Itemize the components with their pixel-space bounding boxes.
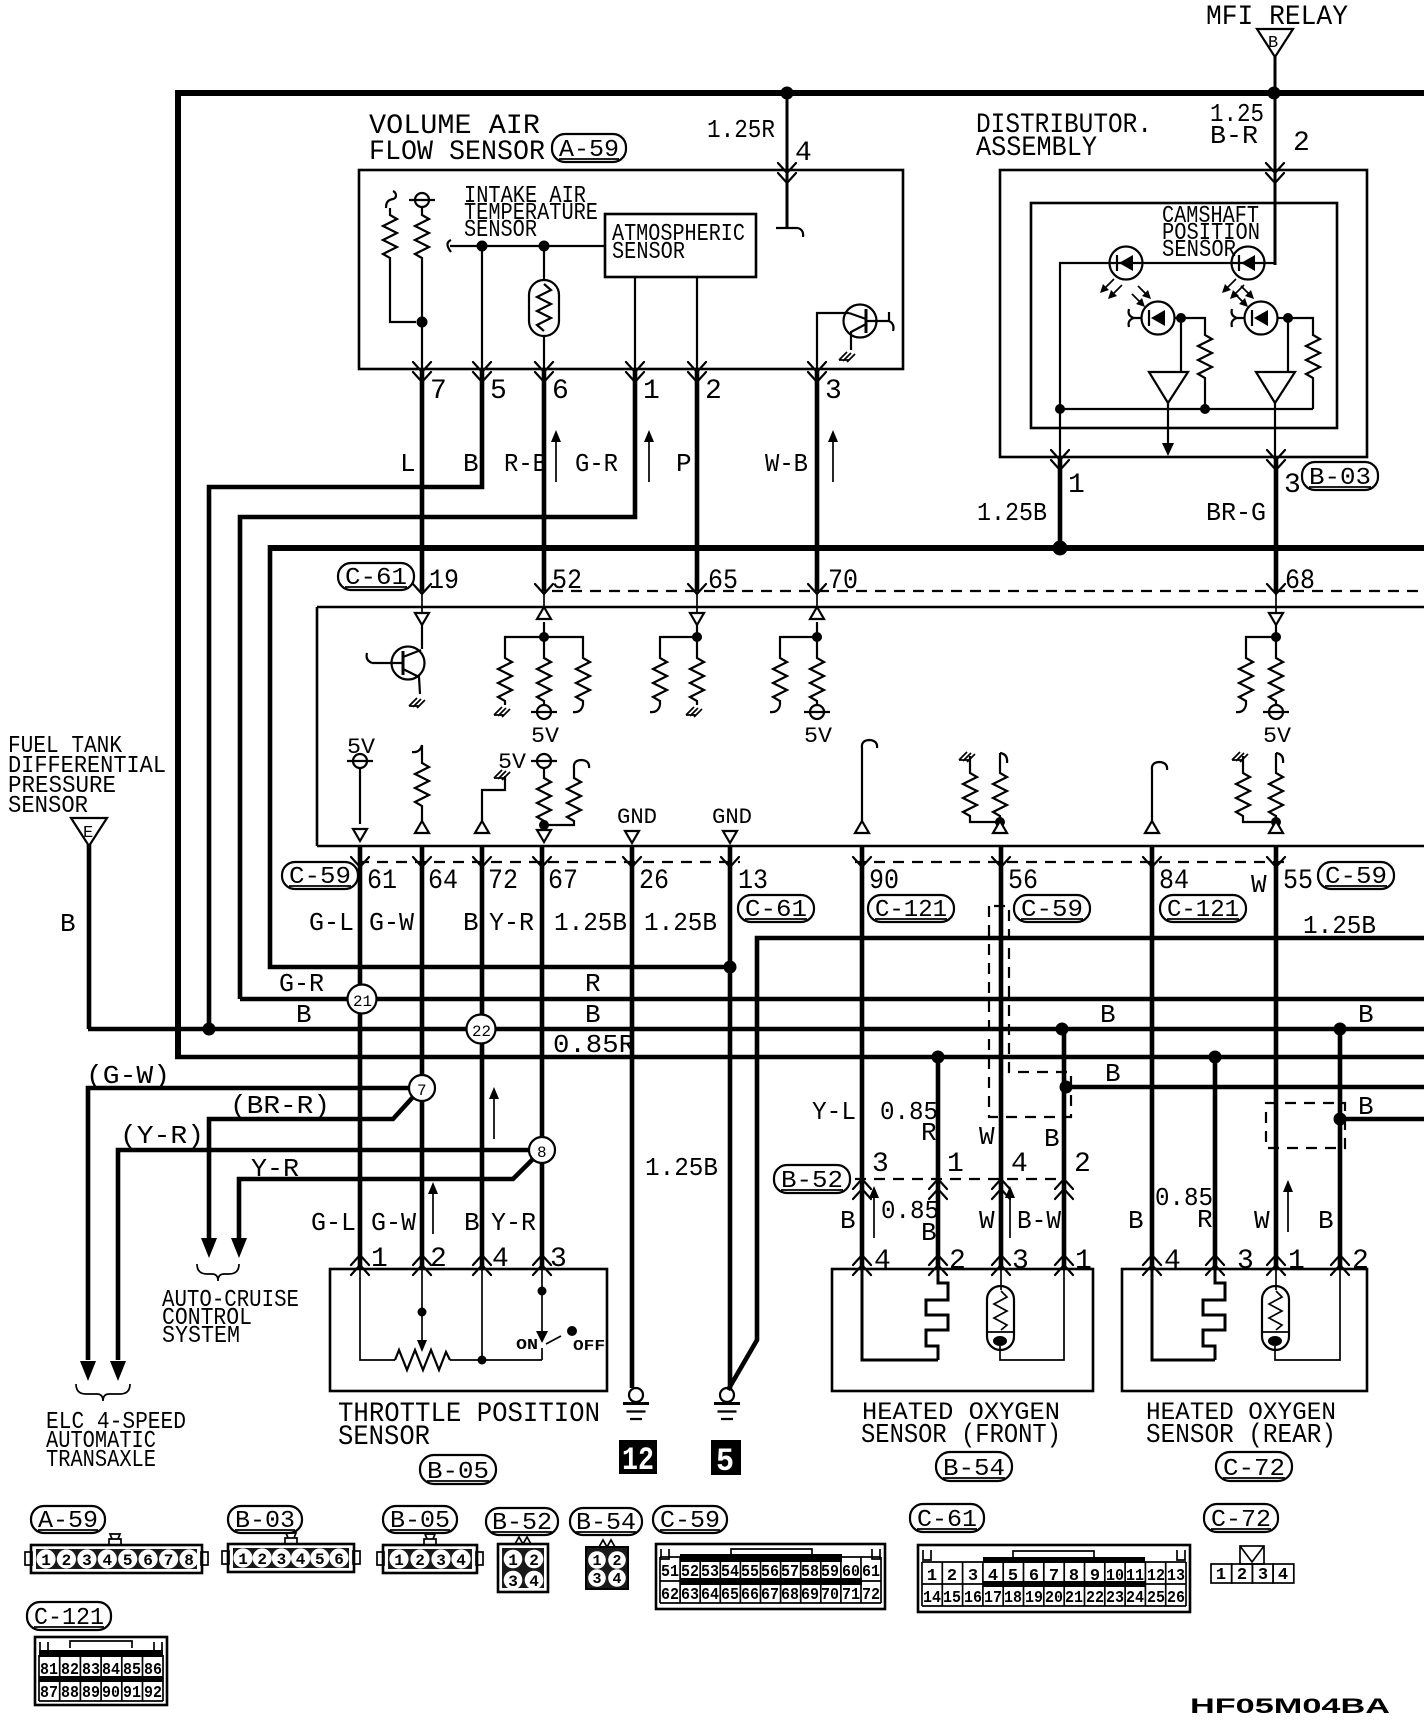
svg-text:5: 5 bbox=[1008, 1567, 1018, 1586]
wire: buffer2 output to pin 3 bbox=[1274, 403, 1276, 457]
svg-text:25: 25 bbox=[1147, 1589, 1165, 1608]
ground 12 bbox=[619, 1388, 657, 1479]
wire: 1.25B bus drop to R line bbox=[270, 545, 728, 967]
svg-text:2: 2 bbox=[612, 1553, 621, 1570]
direction arrow bbox=[828, 430, 838, 482]
svg-text:8: 8 bbox=[184, 1552, 194, 1570]
svg-text:B: B bbox=[463, 908, 479, 938]
node bbox=[1334, 1023, 1347, 1036]
svg-text:2: 2 bbox=[529, 1552, 539, 1570]
svg-text:R-B: R-B bbox=[504, 449, 547, 479]
svg-text:5: 5 bbox=[716, 1443, 734, 1480]
svg-text:5: 5 bbox=[315, 1551, 325, 1569]
GND terminal pin 26 bbox=[617, 805, 657, 843]
direction arrow bbox=[551, 430, 561, 482]
node bbox=[1060, 1081, 1073, 1094]
joint 21 bbox=[348, 985, 377, 1014]
node: MFI relay junction bbox=[1268, 87, 1281, 100]
joint 7 bbox=[409, 1075, 435, 1101]
ECU box bbox=[317, 607, 1424, 846]
svg-text:C-121: C-121 bbox=[34, 1605, 104, 1632]
connector C-59 pinout bbox=[656, 1544, 885, 1609]
svg-text:3: 3 bbox=[277, 1551, 287, 1569]
svg-text:P: P bbox=[676, 449, 692, 479]
connector triangle E (fuel tank sensor) bbox=[71, 818, 107, 846]
svg-text:72: 72 bbox=[862, 1586, 880, 1605]
svg-text:2: 2 bbox=[62, 1552, 72, 1570]
svg-text:4: 4 bbox=[1164, 1246, 1181, 1277]
svg-text:(BR-R): (BR-R) bbox=[230, 1091, 330, 1121]
switch blade bbox=[546, 1336, 561, 1344]
svg-text:2: 2 bbox=[1293, 128, 1310, 159]
svg-text:3: 3 bbox=[508, 1573, 518, 1591]
svg-text:W: W bbox=[1251, 870, 1267, 900]
wire: TPS pin4 bbox=[481, 1269, 483, 1360]
svg-text:4: 4 bbox=[988, 1567, 998, 1586]
connector tag B-03 bbox=[1302, 462, 1378, 492]
joint 8 bbox=[529, 1137, 555, 1163]
connector B-54 pinout bbox=[586, 1540, 628, 1589]
wire: MFI relay to bus bbox=[1274, 55, 1277, 93]
node bbox=[1055, 404, 1065, 414]
connector crossings at ECU bottom bbox=[351, 857, 369, 867]
svg-text:0.85R: 0.85R bbox=[553, 1030, 635, 1060]
svg-text:3: 3 bbox=[872, 1149, 889, 1180]
wire: PD2 to pull resistor bbox=[1288, 318, 1313, 332]
node bbox=[1283, 313, 1293, 323]
heated oxygen sensor (rear) case bbox=[1122, 1269, 1367, 1391]
svg-text:E: E bbox=[83, 824, 93, 843]
svg-text:23: 23 bbox=[1106, 1589, 1124, 1608]
wire: PD2 to buffer bbox=[1287, 318, 1289, 372]
C-61 connector dashed line bbox=[552, 590, 1424, 592]
connector crossing at distributor case bbox=[1266, 163, 1284, 183]
wire: pin84 B to rear O2 bbox=[1150, 847, 1155, 1269]
svg-text:4: 4 bbox=[874, 1246, 891, 1277]
svg-text:10: 10 bbox=[1106, 1567, 1124, 1586]
wire: (BR-R) branch to auto-cruise bbox=[209, 1097, 413, 1238]
svg-text:FLOW SENSOR: FLOW SENSOR bbox=[369, 137, 545, 168]
svg-text:G-L: G-L bbox=[309, 908, 354, 938]
connector crossing into VAF case bbox=[778, 163, 796, 183]
svg-text:83: 83 bbox=[82, 1661, 100, 1680]
svg-text:1: 1 bbox=[947, 1149, 964, 1180]
connector tag C-59 (left) bbox=[282, 862, 358, 891]
svg-text:2: 2 bbox=[415, 1552, 425, 1570]
svg-text:B: B bbox=[1044, 1124, 1060, 1154]
connector tag C-121 (pinout row) bbox=[27, 1602, 111, 1632]
svg-text:C-59: C-59 bbox=[1021, 897, 1083, 924]
svg-text:22: 22 bbox=[1086, 1589, 1104, 1608]
svg-text:A-59: A-59 bbox=[38, 1508, 98, 1535]
svg-text:56: 56 bbox=[761, 1563, 779, 1582]
svg-text:65: 65 bbox=[721, 1586, 739, 1605]
wire: TPS pin1 to pot end bbox=[360, 1269, 395, 1360]
svg-text:B: B bbox=[1105, 1059, 1121, 1089]
svg-text:B-52: B-52 bbox=[781, 1168, 843, 1195]
B-52 crossings bbox=[853, 1179, 871, 1199]
transistor (ECU input stage) bbox=[367, 647, 425, 709]
connector tag B-05 bbox=[420, 1455, 496, 1486]
oxygen sensing cell (front O2) bbox=[987, 1269, 1064, 1360]
svg-text:B-R: B-R bbox=[1210, 121, 1258, 151]
heater element (rear O2) bbox=[1152, 1269, 1225, 1360]
connector tag B-52 (pinout row) bbox=[486, 1508, 558, 1537]
node bbox=[539, 632, 549, 642]
svg-text:14: 14 bbox=[923, 1589, 941, 1608]
svg-text:7: 7 bbox=[430, 376, 447, 407]
connector triangle B (MFI relay) bbox=[1257, 29, 1293, 57]
svg-text:58: 58 bbox=[801, 1563, 819, 1582]
svg-text:SENSOR (FRONT): SENSOR (FRONT) bbox=[861, 1421, 1061, 1451]
wire: B branch line (rear O2) bbox=[1339, 1117, 1424, 1122]
idle switch contact (TPS pin3) bbox=[541, 1269, 543, 1332]
resistor pair at pin 70 bbox=[770, 637, 817, 712]
svg-text:9: 9 bbox=[1090, 1567, 1100, 1586]
svg-text:B: B bbox=[1268, 34, 1278, 53]
svg-text:62: 62 bbox=[661, 1586, 679, 1605]
wire: 0.85R distribution line bbox=[175, 1055, 1424, 1060]
wire: pin5 B turning left bbox=[209, 369, 482, 1029]
svg-text:1: 1 bbox=[1068, 470, 1085, 501]
svg-text:24: 24 bbox=[1126, 1589, 1144, 1608]
wire: pin1 G-R turning left bbox=[240, 369, 635, 999]
wire: atmospheric sensor out 1 bbox=[634, 277, 636, 369]
ECU input terminal pin68 bbox=[1269, 613, 1283, 625]
connector tag B-05 (pinout row) bbox=[383, 1506, 457, 1535]
buffer amp 2 bbox=[1256, 372, 1295, 403]
svg-text:63: 63 bbox=[681, 1586, 699, 1605]
svg-text:B: B bbox=[296, 1000, 312, 1030]
svg-text:3: 3 bbox=[1284, 470, 1301, 501]
svg-text:C-121: C-121 bbox=[1167, 897, 1239, 924]
VAF sensor case bbox=[359, 170, 903, 369]
svg-text:W: W bbox=[1254, 1206, 1270, 1236]
svg-text:56: 56 bbox=[1008, 866, 1038, 897]
wire: pin6 R-B to ECU 52 bbox=[542, 369, 547, 591]
transistor (VAF output stage) bbox=[817, 305, 894, 370]
svg-text:4: 4 bbox=[612, 1571, 621, 1588]
ATMOSPHERIC SENSOR box bbox=[605, 214, 756, 277]
svg-text:L: L bbox=[400, 449, 416, 479]
svg-text:54: 54 bbox=[721, 1563, 739, 1582]
svg-text:1.25B: 1.25B bbox=[645, 1153, 718, 1183]
wire bbox=[816, 622, 818, 637]
wire: (G-W) branch to ELC bbox=[88, 1088, 410, 1360]
node bbox=[539, 241, 550, 252]
svg-text:66: 66 bbox=[741, 1586, 759, 1605]
svg-text:SENSOR: SENSOR bbox=[338, 1422, 430, 1453]
wiper (TPS pin2) bbox=[421, 1269, 423, 1340]
svg-text:SENSOR: SENSOR bbox=[8, 793, 88, 820]
sense line pin 84 bbox=[1145, 762, 1167, 833]
svg-text:4: 4 bbox=[102, 1552, 112, 1570]
svg-text:SENSOR: SENSOR bbox=[612, 239, 685, 266]
arrow to auto-cruise 2 bbox=[231, 1238, 247, 1258]
wire: Y-R branch to auto-cruise bbox=[239, 1159, 533, 1238]
svg-text:GND: GND bbox=[617, 805, 657, 830]
svg-text:G-W: G-W bbox=[371, 1208, 416, 1238]
sense line pin 90 bbox=[855, 740, 877, 833]
svg-text:Y-L: Y-L bbox=[812, 1097, 856, 1127]
svg-text:B: B bbox=[1318, 1206, 1334, 1236]
connector tag B-52 bbox=[774, 1165, 850, 1195]
svg-text:67: 67 bbox=[548, 866, 578, 897]
svg-text:52: 52 bbox=[681, 1563, 699, 1582]
throttle position sensor case bbox=[330, 1269, 607, 1391]
wire: distributor pin1 1.25B to main bus bbox=[1058, 457, 1063, 548]
svg-text:C-72: C-72 bbox=[1223, 1456, 1285, 1483]
connector C-121 pinout bbox=[35, 1637, 167, 1705]
svg-text:C-59: C-59 bbox=[289, 864, 351, 891]
svg-text:1: 1 bbox=[371, 1244, 388, 1275]
svg-text:3: 3 bbox=[1237, 1246, 1254, 1277]
svg-text:B-03: B-03 bbox=[235, 1508, 295, 1535]
svg-text:B: B bbox=[464, 1208, 480, 1238]
svg-text:67: 67 bbox=[761, 1586, 779, 1605]
svg-text:8: 8 bbox=[537, 1144, 547, 1162]
svg-text:68: 68 bbox=[1285, 566, 1315, 597]
wire: pin7 L to ECU 19 bbox=[420, 369, 425, 591]
wire bbox=[543, 622, 545, 637]
svg-text:70: 70 bbox=[828, 566, 858, 597]
svg-text:B-03: B-03 bbox=[1309, 465, 1371, 492]
svg-text:B: B bbox=[60, 909, 76, 939]
svg-text:13: 13 bbox=[1167, 1567, 1185, 1586]
svg-text:3: 3 bbox=[82, 1552, 92, 1570]
svg-text:53: 53 bbox=[701, 1563, 719, 1582]
5V source for pin 61 bbox=[347, 735, 376, 841]
svg-text:21: 21 bbox=[353, 993, 372, 1011]
LED 2 (camshaft sensor) bbox=[1222, 247, 1265, 300]
connector B-52 pinout bbox=[498, 1537, 548, 1592]
svg-text:B-05: B-05 bbox=[427, 1459, 489, 1486]
svg-text:G-W: G-W bbox=[369, 908, 414, 938]
svg-text:C-59: C-59 bbox=[1325, 864, 1387, 891]
svg-text:82: 82 bbox=[61, 1661, 79, 1680]
arrow to ELC 2 bbox=[110, 1361, 126, 1381]
svg-text:1.25B: 1.25B bbox=[977, 498, 1047, 528]
distributor case bbox=[1000, 170, 1367, 457]
terminal bar of pin 4 wire bbox=[776, 228, 803, 237]
svg-text:7: 7 bbox=[417, 1082, 427, 1100]
wire: LED supply rail bbox=[1060, 263, 1275, 409]
svg-text:1.25B: 1.25B bbox=[554, 908, 627, 938]
rear O2 pin entries bbox=[1143, 1255, 1161, 1275]
wire: left vertical feed bus bbox=[175, 90, 181, 1057]
wire: 1.25B ground line to grounds bbox=[728, 938, 1424, 1390]
svg-text:B: B bbox=[1100, 1000, 1116, 1030]
svg-text:26: 26 bbox=[1167, 1589, 1185, 1608]
brace ELC bbox=[76, 1384, 130, 1401]
svg-text:(Y-R): (Y-R) bbox=[120, 1121, 204, 1151]
svg-text:57: 57 bbox=[781, 1563, 799, 1582]
wire: (Y-R) branch to ELC bbox=[118, 1150, 529, 1360]
photodiode 1 bbox=[1129, 286, 1180, 335]
thermistor (intake air temp sensor) bbox=[529, 246, 559, 369]
connector tag C-59 (below pin56) bbox=[1014, 895, 1090, 924]
resistor (cam sensor 2) bbox=[1306, 332, 1320, 380]
svg-text:51: 51 bbox=[661, 1563, 679, 1582]
connector tag B-54 bbox=[936, 1452, 1012, 1483]
svg-text:R: R bbox=[585, 969, 601, 999]
svg-text:B-W: B-W bbox=[1017, 1206, 1061, 1236]
connector tag A-59 (pinout row) bbox=[31, 1506, 105, 1535]
svg-text:G-L: G-L bbox=[311, 1208, 356, 1238]
svg-text:61: 61 bbox=[367, 866, 397, 897]
connector C-72 pinout bbox=[1211, 1546, 1294, 1585]
svg-text:A-59: A-59 bbox=[559, 137, 619, 164]
svg-text:OFF: OFF bbox=[573, 1338, 605, 1355]
svg-text:B: B bbox=[921, 1218, 937, 1248]
wire: pin61 G-L to TPS bbox=[358, 847, 363, 1269]
resistor (VAF flow sensor right) with supply bbox=[409, 193, 435, 369]
svg-text:81: 81 bbox=[40, 1661, 58, 1680]
svg-text:B-54: B-54 bbox=[576, 1510, 636, 1537]
ECU input terminal pin70 bbox=[810, 607, 824, 619]
svg-text:B: B bbox=[585, 1000, 601, 1030]
OFF contact bbox=[567, 1326, 577, 1336]
svg-text:6: 6 bbox=[552, 376, 569, 407]
resistor network at pin 52 bbox=[494, 637, 544, 717]
svg-text:G-R: G-R bbox=[575, 449, 618, 479]
svg-text:W: W bbox=[979, 1122, 995, 1152]
svg-text:C-121: C-121 bbox=[875, 897, 947, 924]
node: R line end joins pin13 wire bbox=[724, 961, 737, 974]
node: joins 1.25B bus bbox=[1053, 541, 1068, 556]
svg-text:BR-G: BR-G bbox=[1206, 498, 1266, 528]
ground hook for pin 72 bbox=[475, 770, 510, 833]
node bbox=[692, 632, 702, 642]
node: 1.25R tap junction bbox=[781, 87, 794, 100]
wire: pin3 W-B to ECU 70 bbox=[815, 369, 820, 591]
connector tag C-72 (pinout row) bbox=[1204, 1504, 1278, 1534]
svg-text:4: 4 bbox=[492, 1244, 509, 1275]
svg-text:1: 1 bbox=[508, 1552, 518, 1570]
shielded cable dashed outline (front O2) bbox=[989, 906, 1071, 1117]
connector tag C-72 bbox=[1216, 1452, 1292, 1483]
svg-text:Y-R: Y-R bbox=[251, 1154, 299, 1184]
svg-text:3: 3 bbox=[592, 1571, 601, 1588]
resistor pair at pin 56 bbox=[959, 752, 1007, 833]
wire: pin64 G-W to TPS bbox=[420, 847, 425, 1269]
svg-text:5: 5 bbox=[490, 376, 507, 407]
wire: atmospheric sensor out 2 bbox=[696, 277, 698, 369]
connector tag C-59 (right) bbox=[1318, 862, 1394, 891]
svg-text:B-52: B-52 bbox=[492, 1510, 552, 1537]
direction arrow (G-W) bbox=[428, 1182, 438, 1234]
svg-text:2: 2 bbox=[705, 376, 722, 407]
svg-text:90: 90 bbox=[102, 1684, 120, 1703]
svg-text:91: 91 bbox=[123, 1684, 141, 1703]
svg-text:5V: 5V bbox=[531, 724, 560, 749]
connector C-61 pinout bbox=[918, 1545, 1190, 1612]
pull resistor for pin 64 bbox=[412, 745, 429, 833]
svg-text:1: 1 bbox=[592, 1553, 601, 1570]
wire: pin90 Y-L to front O2 bbox=[860, 847, 865, 1269]
arrow to ELC 1 bbox=[80, 1361, 96, 1381]
svg-text:B: B bbox=[463, 449, 479, 479]
node bbox=[1271, 632, 1281, 642]
wire: pin56 W to front O2 bbox=[999, 847, 1004, 1269]
svg-text:3: 3 bbox=[968, 1567, 978, 1586]
svg-text:20: 20 bbox=[1045, 1589, 1063, 1608]
svg-text:B-05: B-05 bbox=[390, 1508, 450, 1535]
wire: pot right to switch common bbox=[450, 1359, 542, 1361]
wire: pin stubs into ECU bbox=[422, 591, 1276, 617]
wire bbox=[1275, 625, 1277, 637]
connector B-03 pinout bbox=[222, 1533, 360, 1572]
svg-text:68: 68 bbox=[781, 1586, 799, 1605]
svg-text:70: 70 bbox=[821, 1586, 839, 1605]
svg-text:84: 84 bbox=[1159, 866, 1189, 897]
wire: fuel tank sensor B to B line bbox=[87, 844, 92, 1029]
GND terminal pin 13 bbox=[712, 805, 752, 843]
wire: B branch to front O2 bbox=[1062, 1029, 1067, 1269]
resistor (cam sensor 1) bbox=[1198, 332, 1212, 380]
svg-text:C-59: C-59 bbox=[660, 1508, 720, 1535]
svg-text:3: 3 bbox=[1012, 1246, 1029, 1277]
node bbox=[1200, 404, 1210, 414]
node bbox=[1056, 1023, 1069, 1036]
wire: top 1.25R power bus bbox=[178, 90, 1424, 96]
connector tag C-61 bbox=[338, 563, 414, 592]
svg-text:65: 65 bbox=[708, 566, 738, 597]
connector B-05 pinout bbox=[377, 1534, 483, 1573]
svg-text:SENSOR: SENSOR bbox=[464, 217, 537, 244]
resistor pair at pin 68 bbox=[1236, 637, 1276, 712]
svg-text:2: 2 bbox=[1237, 1566, 1247, 1585]
svg-text:16: 16 bbox=[964, 1589, 982, 1608]
svg-text:C-61: C-61 bbox=[745, 897, 807, 924]
svg-text:4: 4 bbox=[296, 1551, 306, 1569]
svg-text:6: 6 bbox=[1029, 1567, 1039, 1586]
node bbox=[812, 632, 822, 642]
svg-text:21: 21 bbox=[1065, 1589, 1083, 1608]
wire: B branch line (front O2) bbox=[1064, 1085, 1424, 1090]
svg-text:87: 87 bbox=[40, 1684, 58, 1703]
svg-text:GND: GND bbox=[712, 805, 752, 830]
svg-text:B: B bbox=[1358, 1092, 1374, 1122]
front O2 pin entries bbox=[853, 1255, 871, 1275]
svg-text:12: 12 bbox=[622, 1442, 654, 1479]
buffer amp 1 bbox=[1149, 372, 1188, 403]
svg-text:1: 1 bbox=[41, 1552, 51, 1570]
svg-text:(G-W): (G-W) bbox=[86, 1061, 170, 1091]
svg-text:SYSTEM: SYSTEM bbox=[162, 1323, 240, 1350]
wire bbox=[421, 625, 423, 649]
direction arrow bbox=[644, 430, 654, 482]
svg-text:6: 6 bbox=[334, 1551, 344, 1569]
svg-text:19: 19 bbox=[429, 566, 459, 597]
wire: pin55 W to rear O2 bbox=[1274, 847, 1279, 1269]
svg-text:ASSEMBLY: ASSEMBLY bbox=[976, 133, 1097, 164]
wire: G-R / R line bbox=[240, 997, 1424, 1002]
svg-text:1: 1 bbox=[1288, 1246, 1305, 1277]
svg-text:C-61: C-61 bbox=[345, 565, 407, 592]
svg-text:W: W bbox=[979, 1206, 995, 1236]
svg-text:1.25R: 1.25R bbox=[707, 115, 775, 145]
svg-text:22: 22 bbox=[472, 1023, 491, 1041]
wire: 1.25B main bus bbox=[270, 545, 1424, 551]
connector tag B-54 (pinout row) bbox=[570, 1508, 642, 1537]
connector tag C-61 (pinout row) bbox=[910, 1504, 984, 1534]
svg-text:1: 1 bbox=[1216, 1566, 1226, 1585]
connector tag B-03 (pinout row) bbox=[228, 1506, 302, 1535]
wire: sensor ground rail bbox=[1060, 408, 1313, 410]
svg-text:1: 1 bbox=[1075, 1246, 1092, 1277]
svg-text:3: 3 bbox=[436, 1552, 446, 1570]
